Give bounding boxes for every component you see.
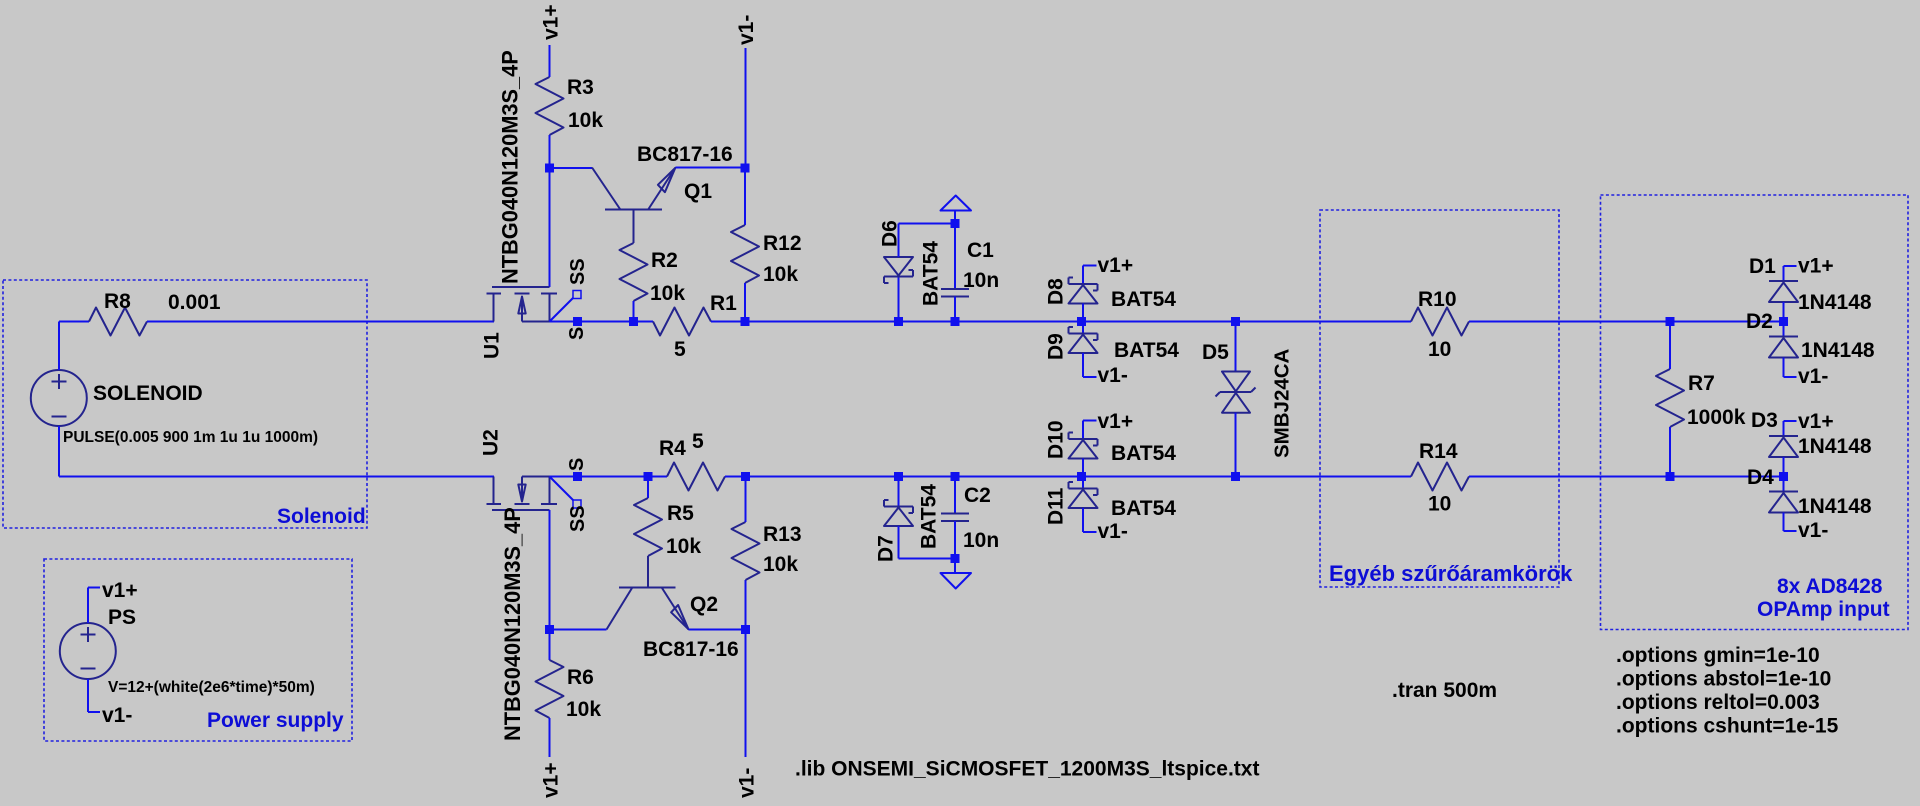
wire R7 bottom lead: [1669, 427, 1671, 477]
wire D4 anode to v1-: [1784, 513, 1797, 532]
svg-text:D8: D8: [1045, 278, 1068, 305]
resistor R7: [1656, 369, 1684, 427]
svg-text:v1+: v1+: [540, 762, 563, 798]
value 0.001 of R8: [168, 291, 221, 314]
label Q2: [690, 593, 718, 616]
label SS at U2: [567, 505, 589, 532]
label R6: [567, 666, 594, 689]
svg-text:10n: 10n: [963, 269, 999, 292]
label NTBG040N120M3S_4P of U1: [497, 50, 522, 284]
svg-text:R4: R4: [659, 437, 686, 460]
svg-text:S: S: [566, 458, 588, 471]
wire R4 to D7 node: [725, 476, 899, 478]
mosfet U2 NTBG040N120M3S_4P: [487, 477, 558, 511]
annotation box: Solenoid: [3, 280, 367, 528]
svg-text:10k: 10k: [666, 535, 701, 558]
svg-text:v1-: v1-: [1798, 519, 1828, 542]
svg-text:v1-: v1-: [1098, 364, 1128, 387]
svg-text:.options gmin=1e-10: .options gmin=1e-10: [1616, 644, 1820, 667]
label BAT54 of D10: [1111, 442, 1176, 465]
flag v1- at D4: [1798, 519, 1828, 542]
value V= of PS: [108, 679, 315, 696]
wire rail to v1- flag: [745, 630, 747, 758]
wire R8 to U1 drain: [147, 321, 494, 323]
flag v1+ at D8: [1083, 254, 1133, 277]
label Egyeb szuroaramkorok (box title): [1329, 561, 1573, 586]
junction C2 top node: [951, 472, 960, 481]
label R14: [1419, 440, 1458, 463]
label D2: [1746, 310, 1773, 333]
mosfet U1 NTBG040N120M3S_4P: [487, 287, 558, 322]
wire C1 node to D8 node: [955, 321, 1082, 323]
flag v1+ at PS: [88, 579, 138, 623]
wire rail to R13: [745, 580, 747, 630]
diode D3 1N4148: [1769, 436, 1798, 457]
svg-text:1N4148: 1N4148: [1798, 435, 1872, 458]
wire D10 node to D5 node: [1082, 476, 1236, 478]
svg-text:BC817-16: BC817-16: [637, 143, 733, 166]
svg-text:D9: D9: [1045, 333, 1068, 360]
label OPAmp input (box title): [1757, 598, 1890, 621]
resistor R8: [89, 308, 147, 336]
svg-text:SOLENOID: SOLENOID: [93, 382, 203, 405]
svg-text:R3: R3: [567, 76, 594, 99]
junction S node top: [573, 317, 582, 326]
svg-text:SS: SS: [567, 258, 589, 285]
svg-text:NTBG040N120M3S_4P: NTBG040N120M3S_4P: [500, 507, 525, 741]
svg-text:v1+: v1+: [1098, 254, 1134, 277]
flag v1+ at D1: [1784, 255, 1834, 278]
wire R2 to main wire: [633, 301, 635, 322]
wire gate node to Q1 collector: [550, 167, 593, 169]
diode D7 BAT54: [884, 500, 913, 526]
wire D3 anode to node: [1783, 457, 1785, 477]
directive .lib: [795, 758, 1259, 781]
wire C2 node to D10 node: [955, 476, 1082, 478]
svg-text:R8: R8: [104, 290, 131, 313]
wire D7 anode down and right: [899, 526, 956, 559]
svg-text:V=12+(white(2e6*time)*50m): V=12+(white(2e6*time)*50m): [108, 679, 315, 696]
label BAT54 of D9: [1114, 339, 1179, 362]
svg-text:v1+: v1+: [1798, 255, 1834, 278]
diode D8 BAT54: [1069, 278, 1098, 304]
svg-text:R6: R6: [567, 666, 594, 689]
svg-text:8x AD8428: 8x AD8428: [1777, 575, 1883, 598]
svg-text:BAT54: BAT54: [1111, 497, 1176, 520]
resistor R12: [731, 225, 759, 283]
label BAT54 of D6: [920, 241, 943, 306]
label NTBG040N120M3S_4P of U2: [500, 507, 525, 741]
voltage source SOLENOID body: [31, 370, 87, 426]
label D9: [1045, 333, 1068, 360]
wire D6 node to C1 node: [899, 321, 956, 323]
port SS at U1: [550, 291, 582, 322]
annotation box: Power supply: [44, 559, 352, 741]
flag v1+ at D10: [1083, 410, 1133, 433]
label D8: [1045, 278, 1068, 305]
directive .options gmin: [1616, 644, 1820, 667]
svg-text:OPAmp input: OPAmp input: [1757, 598, 1890, 621]
wire rail to R12: [744, 168, 746, 225]
svg-text:PULSE(0.005 900 1m 1u 1u 1000m: PULSE(0.005 900 1m 1u 1u 1000m): [63, 429, 318, 446]
voltage source PS body: [60, 623, 116, 679]
resistor R2: [620, 243, 648, 301]
resistor R14: [1411, 463, 1469, 491]
svg-text:.options abstol=1e-10: .options abstol=1e-10: [1616, 668, 1831, 691]
wire D9 cathode: [1082, 322, 1084, 334]
junction R2 node: [629, 317, 638, 326]
label D3: [1751, 409, 1778, 432]
svg-text:D7: D7: [875, 535, 898, 562]
label BAT54 of D8: [1111, 288, 1176, 311]
svg-text:1N4148: 1N4148: [1798, 495, 1872, 518]
resistor R6: [536, 660, 564, 718]
capacitor C2: [941, 477, 969, 559]
label U1: [481, 332, 504, 359]
wire D9 anode to v1-: [1083, 353, 1097, 377]
svg-text:Egyéb szűrőáramkörök: Egyéb szűrőáramkörök: [1329, 561, 1573, 586]
label BAT54 of D7: [918, 484, 941, 549]
junction D7 node: [894, 472, 903, 481]
wire R7 top lead: [1669, 322, 1671, 370]
diode D4 1N4148: [1769, 492, 1798, 513]
wire R3 to gate node: [549, 135, 551, 168]
svg-text:C1: C1: [967, 239, 994, 262]
junction D6 node: [894, 317, 903, 326]
svg-text:.options cshunt=1e-15: .options cshunt=1e-15: [1616, 715, 1839, 738]
wire D8 anode to main: [1082, 304, 1084, 322]
wire R6 to v1+ flag: [549, 718, 551, 757]
svg-text:D3: D3: [1751, 409, 1778, 432]
junction R7 bottom node: [1666, 472, 1675, 481]
wire D6 cathode to main: [898, 277, 900, 322]
wire D11 cathode: [1082, 477, 1084, 489]
label D4: [1747, 466, 1774, 489]
label SS at U1: [567, 258, 589, 285]
flag v1- at D9: [1098, 364, 1128, 387]
svg-text:R14: R14: [1419, 440, 1458, 463]
value 5 of R1: [674, 338, 686, 361]
directive .tran 500m: [1392, 679, 1497, 702]
svg-text:1N4148: 1N4148: [1798, 291, 1872, 314]
wire D1 anode to node: [1783, 302, 1785, 322]
diode D11 BAT54: [1069, 482, 1098, 508]
label S at U1: [566, 327, 588, 340]
diode D2 1N4148: [1769, 337, 1798, 358]
value 10k of R3: [568, 109, 603, 132]
svg-text:R5: R5: [667, 502, 694, 525]
svg-text:1N4148: 1N4148: [1801, 339, 1875, 362]
value 10k of R2: [650, 282, 685, 305]
annotation box: Egyeb szuroaramkorok: [1320, 210, 1559, 587]
wire R7 node to D2 node: [1670, 321, 1784, 323]
diode D5 SMBJ24CA: [1216, 372, 1256, 413]
label SMBJ24CA of D5: [1270, 348, 1293, 458]
svg-text:D10: D10: [1045, 420, 1068, 459]
junction v1- rail bottom: [741, 625, 750, 634]
svg-text:SMBJ24CA: SMBJ24CA: [1270, 348, 1293, 458]
label BAT54 of D11: [1111, 497, 1176, 520]
junction v1- rail top: [741, 164, 750, 173]
flag v1- at PS: [88, 679, 132, 727]
wire D5 node to R10: [1236, 321, 1412, 323]
value PULSE of SOLENOID: [63, 429, 318, 446]
svg-text:NTBG040N120M3S_4P: NTBG040N120M3S_4P: [497, 50, 522, 284]
junction D2 node: [1779, 317, 1788, 326]
junction D5 bottom node: [1231, 472, 1240, 481]
svg-text:Power supply: Power supply: [207, 709, 344, 732]
svg-text:C2: C2: [964, 484, 991, 507]
wire D5 top lead: [1235, 322, 1237, 372]
wire D10 cathode: [1082, 421, 1084, 440]
diode D9 BAT54: [1069, 327, 1098, 353]
svg-text:v1+: v1+: [102, 579, 138, 602]
junction gate node U2: [545, 625, 554, 634]
svg-text:BAT54: BAT54: [1111, 288, 1176, 311]
flag v1- at D2: [1798, 365, 1828, 388]
label SOLENOID: [93, 382, 203, 405]
svg-text:10k: 10k: [763, 263, 798, 286]
svg-text:.tran 500m: .tran 500m: [1392, 679, 1497, 702]
junction D8 node: [1077, 317, 1086, 326]
wire D5 node to R14: [1236, 476, 1412, 478]
directive .options reltol: [1616, 691, 1820, 714]
label R4: [659, 437, 686, 460]
label R8: [104, 290, 131, 313]
wire R5 top lead: [647, 477, 649, 499]
resistor R1: [653, 308, 711, 336]
label R7: [1688, 372, 1715, 395]
svg-text:v1-: v1-: [1798, 365, 1828, 388]
label R12: [763, 232, 802, 255]
wire gate node to U1 gate: [549, 168, 551, 287]
wire D1 cathode: [1783, 266, 1785, 281]
label Q1: [684, 180, 712, 203]
svg-text:R7: R7: [1688, 372, 1715, 395]
diode D1 1N4148: [1769, 281, 1798, 302]
ground flag (flipped) above C1: [941, 196, 972, 224]
value 10 of R14: [1428, 493, 1451, 516]
wire U1 source to S node: [550, 321, 654, 323]
label U2: [480, 429, 503, 456]
label Solenoid (box title): [277, 505, 366, 528]
label Power supply (box title): [207, 709, 344, 732]
svg-text:R10: R10: [1418, 288, 1457, 311]
label C2: [964, 484, 991, 507]
svg-text:U2: U2: [480, 429, 503, 456]
wire Q1 emitter to v1- rail: [676, 167, 746, 169]
label S at U2: [566, 458, 588, 471]
junction D10 node: [1077, 472, 1086, 481]
flag v1+ at D3: [1784, 410, 1834, 433]
diode D10 BAT54: [1069, 433, 1098, 459]
junction C2 bottom node: [951, 554, 960, 563]
junction S node bottom: [573, 472, 582, 481]
transistor Q1 BC817-16: [592, 168, 676, 210]
wire R10 to R7 node: [1469, 321, 1670, 323]
wire R1 to D6 node: [711, 321, 899, 323]
junction R5 node: [644, 472, 653, 481]
svg-text:10n: 10n: [963, 529, 999, 552]
wire D2 cathode: [1783, 322, 1785, 337]
wire D8 cathode: [1082, 266, 1084, 285]
svg-text:D2: D2: [1746, 310, 1773, 333]
wire R7 node to D4 node: [1670, 476, 1784, 478]
resistor R10: [1411, 308, 1469, 336]
wire D4 cathode: [1783, 477, 1785, 492]
wire D5 bottom lead: [1235, 413, 1237, 477]
value 1N4148 of D2: [1801, 339, 1875, 362]
junction gate node U1: [545, 164, 554, 173]
capacitor C1: [941, 224, 969, 322]
wire R5 to Q2 base: [647, 556, 649, 588]
svg-text:R12: R12: [763, 232, 802, 255]
resistor R13: [732, 522, 760, 580]
diode D6 BAT54: [884, 257, 913, 283]
wire D7 cathode to main: [898, 477, 900, 507]
svg-text:BC817-16: BC817-16: [643, 638, 739, 661]
label R5: [667, 502, 694, 525]
svg-text:5: 5: [692, 430, 704, 453]
value 10k of R13: [763, 553, 798, 576]
svg-text:0.001: 0.001: [168, 291, 221, 314]
directive .options cshunt: [1616, 715, 1839, 738]
label D1: [1749, 255, 1776, 278]
svg-text:v1-: v1-: [735, 15, 758, 45]
svg-text:Q2: Q2: [690, 593, 718, 616]
svg-text:PS: PS: [108, 606, 136, 629]
svg-text:BAT54: BAT54: [920, 241, 943, 306]
flag v1+ above R3: [540, 4, 563, 40]
label R10: [1418, 288, 1457, 311]
wire gate node to U2 gate: [549, 510, 551, 630]
junction D5 top node: [1231, 317, 1240, 326]
wire R13 to main wire: [745, 477, 747, 523]
resistor R4: [667, 463, 725, 491]
svg-text:v1-: v1-: [1098, 520, 1128, 543]
value 10k of R6: [566, 698, 601, 721]
label R2: [651, 249, 678, 272]
label 8x AD8428 (box title): [1777, 575, 1883, 598]
svg-text:R1: R1: [710, 292, 737, 315]
wire D2 anode to v1-: [1784, 358, 1797, 378]
port SS at U2: [550, 477, 582, 509]
value 10n of C2: [963, 529, 999, 552]
value 10n of C1: [963, 269, 999, 292]
wire U2 source to R4: [550, 476, 668, 478]
svg-text:10k: 10k: [568, 109, 603, 132]
svg-text:v1+: v1+: [1798, 410, 1834, 433]
wire D6 anode up and right: [899, 224, 956, 258]
flag v1- above R12 rail: [735, 15, 758, 45]
label R1: [710, 292, 737, 315]
value 1N4148 of D1: [1798, 291, 1872, 314]
svg-text:10k: 10k: [763, 553, 798, 576]
svg-text:10: 10: [1428, 493, 1451, 516]
wire gate node to R6: [549, 630, 551, 661]
svg-text:Q1: Q1: [684, 180, 712, 203]
svg-text:v1-: v1-: [736, 768, 759, 798]
svg-text:v1-: v1-: [102, 704, 132, 727]
label D10: [1045, 420, 1068, 459]
value 10 of R10: [1428, 338, 1451, 361]
label BC817-16 of Q2: [643, 638, 739, 661]
svg-text:BAT54: BAT54: [918, 484, 941, 549]
svg-text:v1+: v1+: [540, 4, 563, 40]
svg-text:10: 10: [1428, 338, 1451, 361]
svg-text:D11: D11: [1045, 487, 1068, 525]
label D7: [875, 535, 898, 562]
label C1: [967, 239, 994, 262]
svg-text:R13: R13: [763, 523, 802, 546]
label BC817-16 of Q1: [637, 143, 733, 166]
svg-text:D4: D4: [1747, 466, 1774, 489]
flag v1- at D11: [1098, 520, 1128, 543]
svg-text:D1: D1: [1749, 255, 1776, 278]
label D6: [879, 220, 902, 247]
svg-text:U1: U1: [481, 332, 504, 359]
svg-text:BAT54: BAT54: [1111, 442, 1176, 465]
wire D8 node to D5 node: [1082, 321, 1236, 323]
value 1000k of R7: [1687, 406, 1746, 429]
junction D4 node: [1779, 472, 1788, 481]
wire Q1 base lead: [633, 210, 635, 244]
flag v1+ below R6: [540, 762, 563, 798]
svg-text:R2: R2: [651, 249, 678, 272]
svg-text:10k: 10k: [650, 282, 685, 305]
annotation box: 8x AD8428 OPAmp input: [1601, 195, 1909, 630]
wire v1+ to R3: [549, 45, 551, 77]
label PS: [108, 606, 136, 629]
wire D10 anode to main: [1082, 459, 1084, 477]
value 1N4148 of D4: [1798, 495, 1872, 518]
label R13: [763, 523, 802, 546]
junction C1 top node: [951, 219, 960, 228]
wire solenoid top: [59, 322, 89, 371]
value 10k of R12: [763, 263, 798, 286]
svg-text:.lib ONSEMI_SiCMOSFET_1200M3S_: .lib ONSEMI_SiCMOSFET_1200M3S_ltspice.tx…: [795, 758, 1259, 781]
label D11: [1045, 487, 1068, 525]
resistor R5: [634, 498, 662, 556]
label R3: [567, 76, 594, 99]
junction R12 node: [741, 317, 750, 326]
wire R14 to R7 node: [1469, 476, 1670, 478]
wire D11 anode to v1-: [1083, 508, 1097, 532]
svg-text:D6: D6: [879, 220, 902, 247]
wire Q2 emitter to rail: [689, 629, 746, 631]
svg-text:.options reltol=0.003: .options reltol=0.003: [1616, 691, 1820, 714]
junction R7 top node: [1666, 317, 1675, 326]
directive .options abstol: [1616, 668, 1831, 691]
junction R4 right node: [741, 472, 750, 481]
wire Q2 collector to gate node: [550, 629, 607, 631]
svg-text:BAT54: BAT54: [1114, 339, 1179, 362]
value 5 of R4: [692, 430, 704, 453]
svg-text:Solenoid: Solenoid: [277, 505, 366, 528]
svg-text:v1+: v1+: [1098, 410, 1134, 433]
ground flag below C2: [941, 559, 972, 589]
wire R12 to main wire: [744, 283, 746, 322]
resistor R3: [536, 77, 564, 135]
svg-text:D5: D5: [1202, 341, 1229, 364]
svg-text:1000k: 1000k: [1687, 406, 1746, 429]
wire v1- flag down: [745, 48, 747, 168]
wire D7 node to C2 node: [899, 476, 956, 478]
value 1N4148 of D3: [1798, 435, 1872, 458]
label D5: [1202, 341, 1229, 364]
svg-text:S: S: [566, 327, 588, 340]
transistor Q2 BC817-16: [607, 588, 689, 630]
